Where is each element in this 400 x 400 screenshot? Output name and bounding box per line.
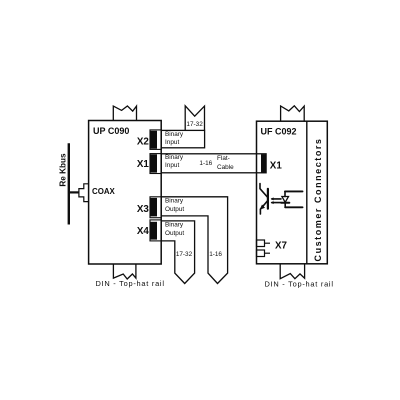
- svg-text:Flat-: Flat-: [217, 155, 230, 162]
- svg-text:1-16: 1-16: [209, 251, 222, 258]
- svg-text:Binary: Binary: [165, 197, 184, 204]
- svg-text:X1: X1: [270, 161, 283, 172]
- svg-text:1-16: 1-16: [199, 160, 212, 167]
- svg-text:17-32: 17-32: [186, 121, 203, 128]
- svg-text:UP C090: UP C090: [93, 126, 129, 136]
- svg-text:Re Kbus: Re Kbus: [59, 153, 68, 187]
- svg-text:Binary: Binary: [165, 222, 184, 229]
- svg-text:COAX: COAX: [92, 187, 116, 196]
- svg-text:DIN - Top-hat rail: DIN - Top-hat rail: [265, 279, 334, 288]
- svg-text:DIN - Top-hat rail: DIN - Top-hat rail: [96, 279, 165, 288]
- svg-text:Output: Output: [165, 206, 184, 213]
- svg-text:Output: Output: [165, 230, 184, 237]
- svg-text:Input: Input: [165, 139, 179, 146]
- svg-text:X2: X2: [137, 137, 150, 148]
- svg-text:X3: X3: [137, 204, 150, 215]
- svg-text:Binary: Binary: [165, 131, 184, 138]
- svg-text:X7: X7: [275, 240, 288, 251]
- svg-text:Input: Input: [165, 162, 179, 169]
- svg-text:X4: X4: [137, 226, 150, 237]
- svg-text:UF C092: UF C092: [261, 127, 297, 137]
- svg-text:Binary: Binary: [165, 154, 184, 161]
- svg-text:17-32: 17-32: [176, 251, 193, 258]
- svg-text:Cable: Cable: [217, 164, 234, 171]
- svg-text:X1: X1: [137, 159, 150, 170]
- svg-text:Customer Connectors: Customer Connectors: [313, 138, 323, 262]
